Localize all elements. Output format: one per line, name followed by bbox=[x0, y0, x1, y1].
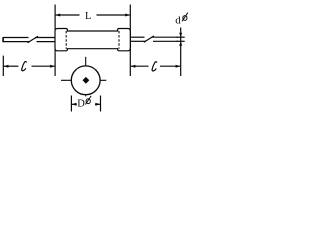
D-phi extension line right bbox=[100, 96, 102, 112]
extension line left (body left edge, shared by L and left lead dim) bbox=[54, 5, 56, 77]
left lead closed end bbox=[2, 37, 4, 42]
arrowhead d-phi pointing up bbox=[179, 42, 182, 46]
arrowhead right-lead-dim left bbox=[131, 65, 136, 68]
dashed cap line left bbox=[65, 31, 67, 49]
cross-section vertical centerline bbox=[85, 57, 87, 97]
arrowhead right-lead-dim right bbox=[176, 65, 181, 68]
right lead wire bottom bbox=[130, 40, 146, 42]
right lead break slash bbox=[144, 36, 154, 42]
D-phi dimension right arrow bbox=[95, 103, 100, 105]
cross-section horizontal centerline bbox=[61, 79, 106, 81]
script ell label left bbox=[22, 62, 27, 71]
dimension line L right segment bbox=[97, 14, 130, 16]
arrowhead left-lead-dim right bbox=[50, 65, 55, 68]
svg-text:D: D bbox=[77, 99, 85, 110]
d-phi tick bottom bbox=[177, 40, 185, 42]
arrowhead L left bbox=[56, 14, 61, 17]
left lead extension line at wire end bbox=[2, 56, 4, 76]
right lead dimension line segments bbox=[131, 65, 149, 67]
arrowhead left-lead-dim left bbox=[4, 65, 9, 68]
arrowhead L right bbox=[125, 14, 130, 17]
right lead wire top bbox=[130, 36, 144, 38]
dimension line L left segment bbox=[56, 14, 80, 16]
arrowhead d-phi pointing down bbox=[179, 33, 182, 37]
left lead break slash bbox=[28, 36, 39, 42]
phi symbol of d-phi bbox=[182, 13, 188, 22]
left lead wire bottom bbox=[3, 41, 30, 43]
D-phi dimension left arrow bbox=[72, 103, 77, 105]
dashed cap line right bbox=[118, 31, 120, 49]
center diamond dot bbox=[83, 77, 90, 84]
left lead wire top bbox=[3, 37, 29, 39]
resistor body outline with end caps bbox=[55, 29, 130, 51]
D-phi extension line left bbox=[70, 96, 72, 112]
left lead dimension line segments bbox=[4, 65, 19, 67]
extension line right (body right edge, shared by L and right lead dim) bbox=[129, 5, 131, 77]
svg-text:L: L bbox=[85, 11, 91, 22]
script ell label right bbox=[152, 62, 157, 71]
d-phi vertical dimension line (continues down as right lead extension) bbox=[180, 28, 182, 77]
phi symbol of D-phi bbox=[85, 96, 91, 105]
svg-text:d: d bbox=[175, 14, 181, 26]
cross-section circle bbox=[71, 66, 100, 95]
d-phi tick top bbox=[177, 36, 185, 38]
